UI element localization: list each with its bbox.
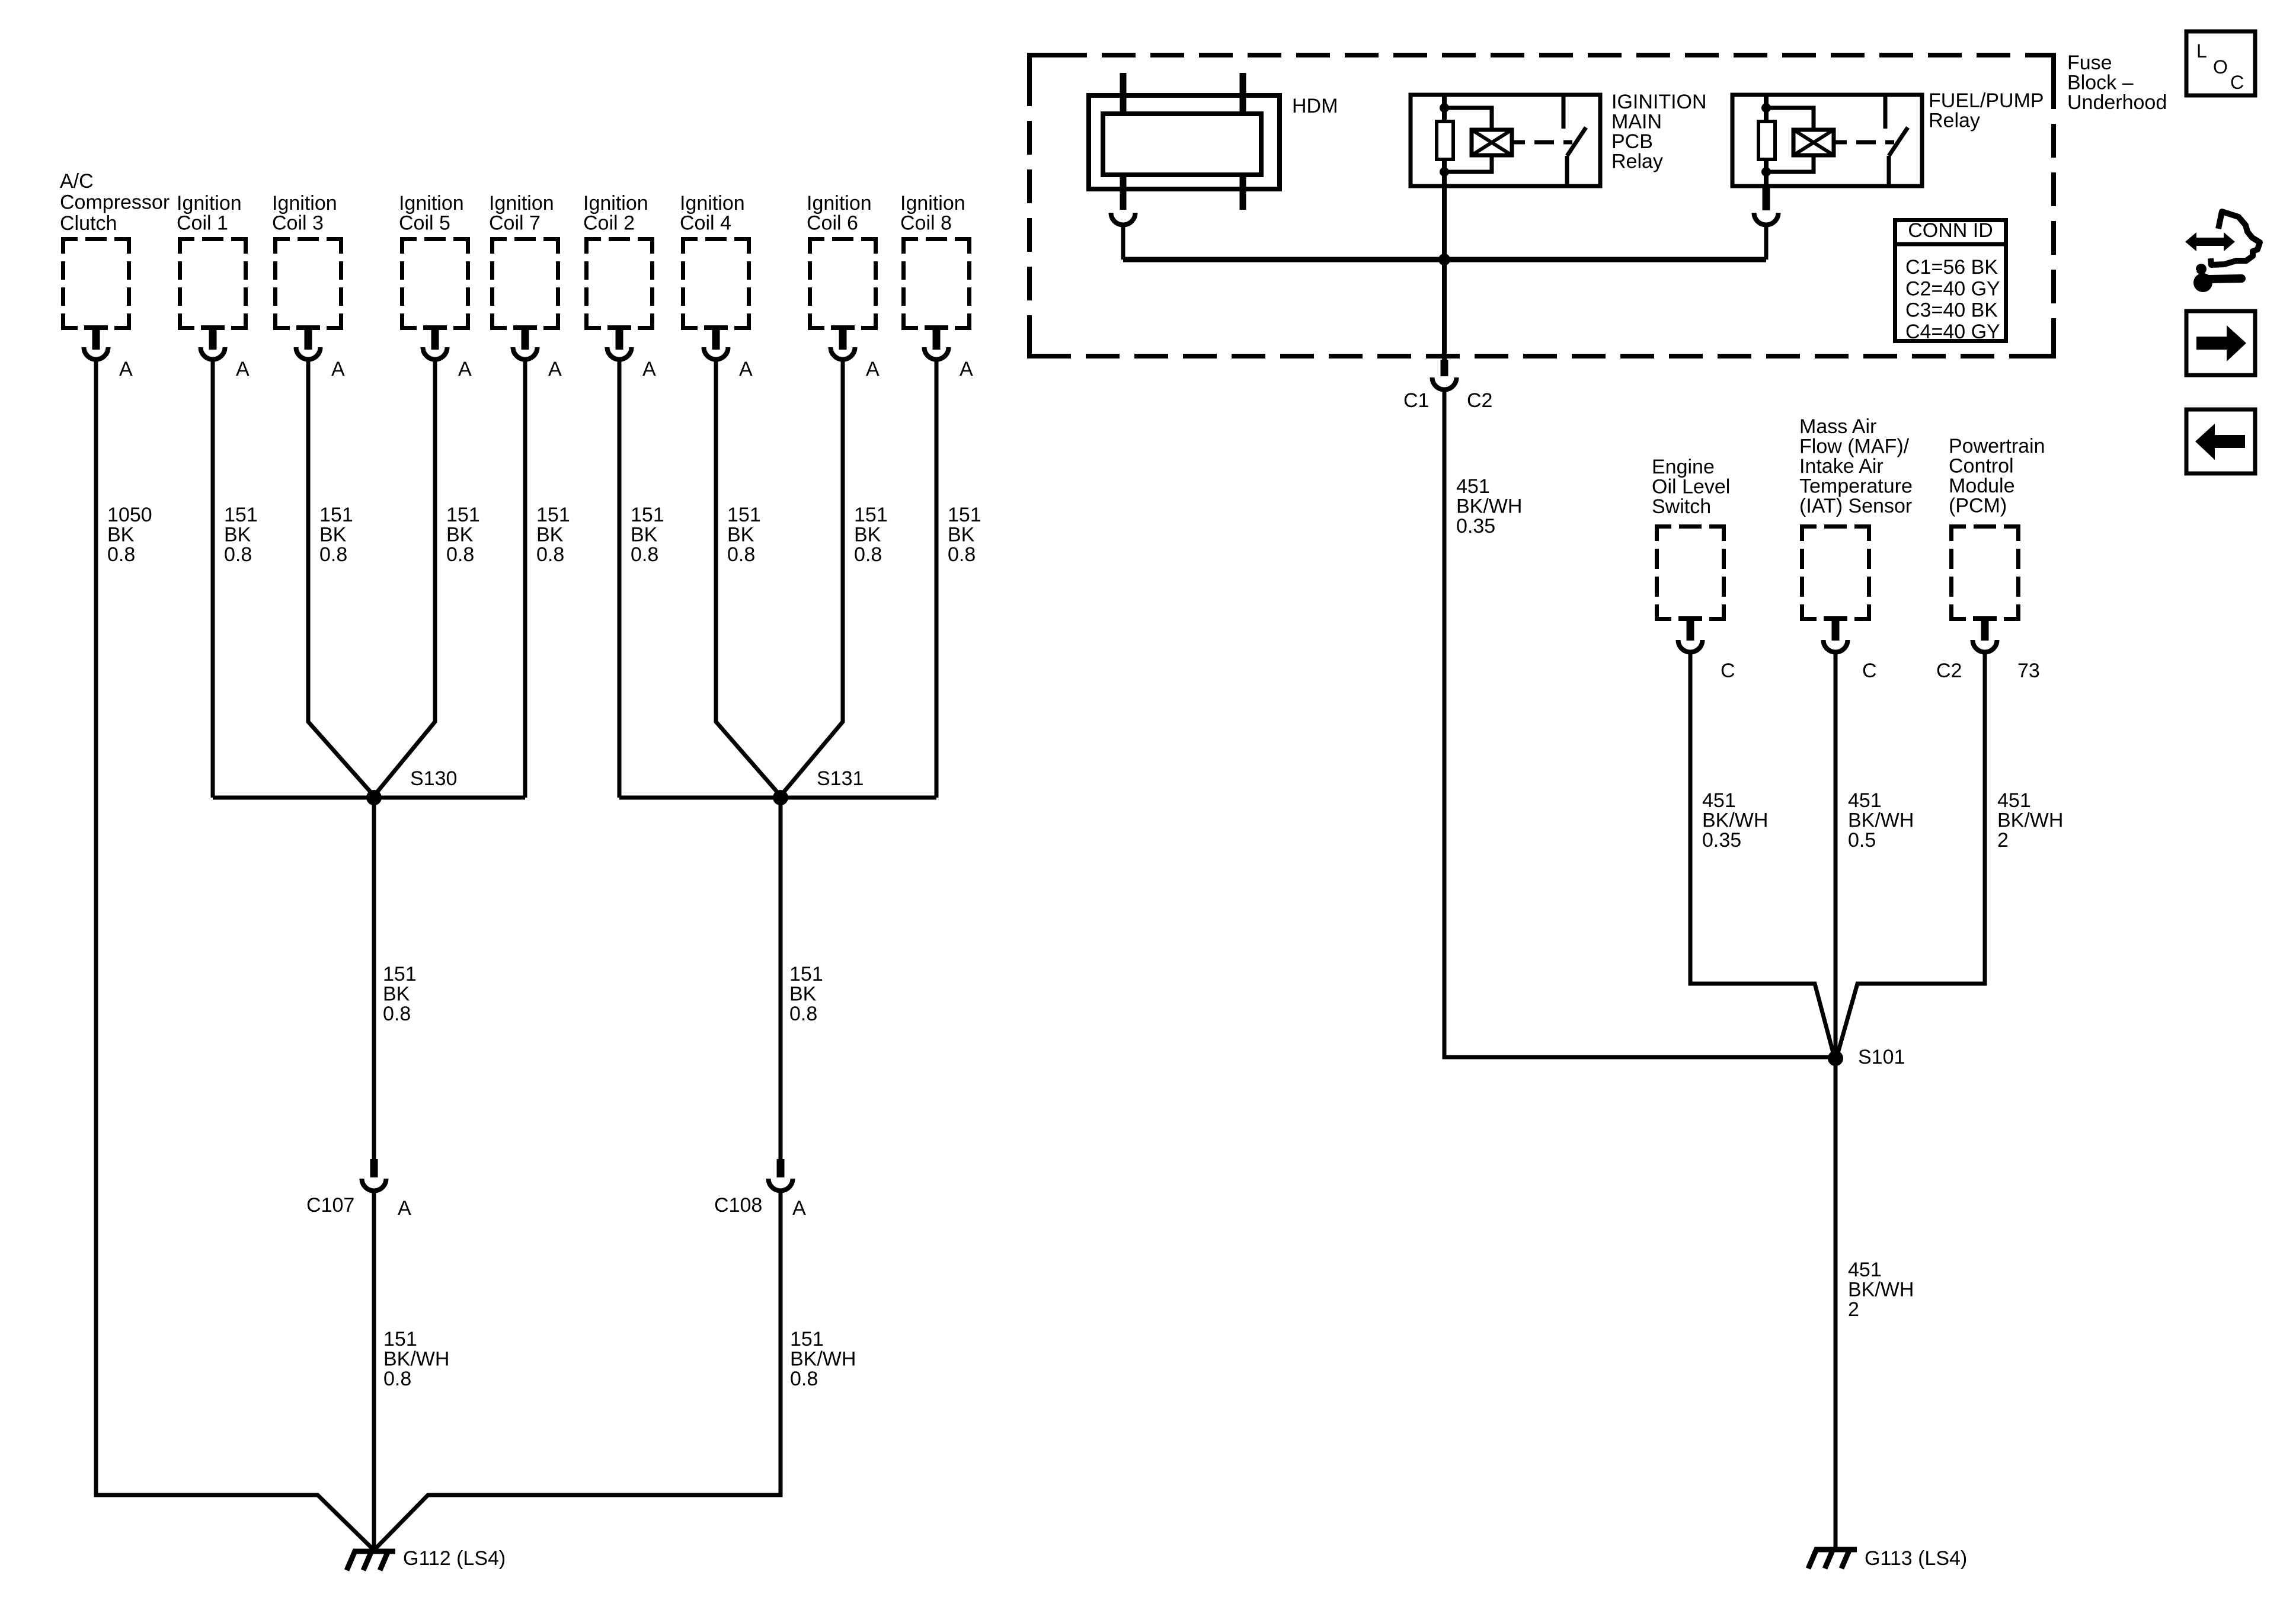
svg-text:151: 151 [383, 1328, 417, 1350]
svg-text:A: A [642, 358, 656, 380]
svg-text:Switch: Switch [1652, 495, 1711, 518]
svg-text:C2: C2 [1467, 389, 1492, 412]
component Powertrain Control Module (PCM) [1936, 435, 2045, 682]
svg-text:0.8: 0.8 [383, 1368, 411, 1390]
svg-text:BK: BK [727, 524, 754, 546]
svg-text:G112 (LS4): G112 (LS4) [403, 1547, 506, 1570]
svg-text:Block –: Block – [2067, 72, 2134, 94]
svg-text:BK/WH: BK/WH [1848, 809, 1914, 832]
right arrow legend box [2186, 311, 2255, 375]
svg-text:Ignition: Ignition [177, 192, 242, 215]
wire bus HDM / relays [1123, 257, 1766, 263]
junction dot on bus [1438, 254, 1450, 265]
wire Ignition Coil 5 to S130 [374, 361, 435, 796]
svg-text:0.8: 0.8 [319, 543, 347, 566]
svg-text:MAIN: MAIN [1611, 111, 1662, 133]
svg-text:Ignition: Ignition [489, 192, 554, 215]
svg-text:BK: BK [854, 524, 881, 546]
svg-text:Clutch: Clutch [60, 212, 117, 235]
svg-text:0.8: 0.8 [789, 1003, 817, 1025]
svg-text:S130: S130 [410, 767, 457, 790]
component Ignition Coil 5 (dashed box with connector pin A) [399, 192, 472, 380]
svg-text:0.8: 0.8 [948, 543, 976, 566]
svg-text:HDM: HDM [1292, 95, 1338, 117]
svg-text:(PCM): (PCM) [1949, 495, 2007, 517]
svg-text:Ignition: Ignition [680, 192, 745, 215]
svg-text:451: 451 [1997, 789, 2031, 812]
wire Ignition Coil 1 to S130 [211, 361, 215, 798]
svg-text:Oil Level: Oil Level [1652, 476, 1730, 498]
connector C108 pin A [714, 1159, 806, 1219]
svg-text:BK/WH: BK/WH [790, 1348, 856, 1371]
component Ignition Coil 3 (dashed box with connector pin A) [272, 192, 345, 380]
svg-text:Ignition: Ignition [583, 192, 648, 215]
component Ignition Coil 8 (dashed box with connector pin A) [900, 192, 973, 380]
wire label 151 BK 0.8 (Ignition Coil 7) [536, 504, 570, 566]
wire Ignition Coil 2 to S131 [618, 361, 622, 798]
wire S131 bus [619, 796, 936, 800]
svg-text:C107: C107 [306, 1194, 354, 1217]
service/part icon (double arrow, part outline, wrench) [2183, 212, 2260, 292]
component Engine Oil Level Switch [1652, 456, 1735, 682]
wire label 151 BK 0.8 (Ignition Coil 6) [854, 504, 888, 566]
svg-text:S101: S101 [1858, 1046, 1905, 1068]
svg-text:C3=40 BK: C3=40 BK [1905, 299, 1998, 322]
svg-text:Relay: Relay [1929, 110, 1980, 132]
svg-text:A: A [119, 358, 133, 380]
svg-text:PCB: PCB [1611, 130, 1653, 153]
connector under HDM [1111, 213, 1136, 225]
svg-text:0.5: 0.5 [1848, 829, 1876, 852]
wire S130 bus [213, 796, 525, 800]
svg-text:(IAT) Sensor: (IAT) Sensor [1799, 495, 1912, 517]
svg-text:0.35: 0.35 [1702, 829, 1741, 852]
svg-text:0.35: 0.35 [1456, 515, 1495, 537]
wire Engine Oil Level Switch to S101, 451 BK/WH 0.35 [1690, 654, 1834, 1057]
wire A/C Compressor Clutch 1050 BK to ground junction [96, 361, 374, 1550]
connector C1/C2 [1403, 360, 1492, 412]
wire 451 BK/WH 0.35 from C1/C2 to S101 [1444, 392, 1835, 1057]
component Ignition Coil 4 (dashed box with connector pin A) [680, 192, 753, 380]
svg-text:C108: C108 [714, 1194, 762, 1217]
svg-text:Mass Air: Mass Air [1799, 415, 1876, 438]
svg-text:Module: Module [1949, 475, 2015, 497]
svg-text:Powertrain: Powertrain [1949, 435, 2045, 457]
svg-text:C: C [1862, 660, 1877, 682]
svg-text:BK/WH: BK/WH [1456, 495, 1522, 518]
svg-text:Relay: Relay [1611, 151, 1663, 173]
svg-text:BK: BK [446, 524, 474, 546]
splice S131 [773, 767, 864, 805]
svg-text:151: 151 [789, 963, 823, 985]
svg-text:Coil 6: Coil 6 [807, 212, 858, 235]
svg-text:Underhood: Underhood [2067, 91, 2167, 114]
svg-text:Intake Air: Intake Air [1799, 455, 1884, 478]
svg-text:Coil 5: Coil 5 [399, 212, 450, 235]
svg-text:A: A [548, 358, 562, 380]
relay IGINITION MAIN PCB Relay [1411, 91, 1707, 188]
svg-text:A/C: A/C [60, 170, 94, 193]
svg-text:C4=40 GY: C4=40 GY [1905, 321, 2000, 343]
svg-text:A: A [792, 1197, 806, 1219]
Fuse Block - Underhood dashed enclosure [1027, 52, 2167, 359]
wire label 151 BK 0.8 (Ignition Coil 2) [631, 504, 664, 566]
component Ignition Coil 2 (dashed box with connector pin A) [583, 192, 656, 380]
svg-text:151: 151 [631, 504, 664, 526]
svg-text:0.8: 0.8 [790, 1368, 818, 1390]
svg-text:Fuse: Fuse [2067, 52, 2112, 74]
svg-text:FUEL/PUMP: FUEL/PUMP [1929, 89, 2044, 112]
svg-text:Ignition: Ignition [272, 192, 337, 215]
svg-text:O: O [2213, 56, 2228, 78]
svg-text:0.8: 0.8 [107, 543, 135, 566]
svg-text:Temperature: Temperature [1799, 475, 1913, 498]
CONN ID table [1893, 219, 2008, 343]
wire label 151 BK 0.8 (Ignition Coil 5) [446, 504, 480, 566]
svg-text:BK/WH: BK/WH [1702, 809, 1768, 832]
svg-text:BK: BK [789, 983, 817, 1006]
wire Ignition Coil 6 to S131 [781, 361, 843, 796]
svg-text:BK: BK [536, 524, 564, 546]
wire Ignition Coil 8 to S131 [935, 361, 939, 798]
svg-text:Coil 2: Coil 2 [583, 212, 635, 235]
splice S130 [366, 767, 457, 805]
svg-text:A: A [866, 358, 880, 380]
svg-text:Compressor: Compressor [60, 191, 170, 214]
svg-text:S131: S131 [817, 767, 864, 790]
wire C107 to G112, 151 BK/WH 0.8 [374, 1193, 449, 1550]
svg-text:2: 2 [1997, 829, 2009, 852]
wire S101 to G113, 451 BK/WH 2 [1835, 1058, 1914, 1548]
svg-text:C2: C2 [1936, 660, 1962, 682]
svg-text:C1=56 BK: C1=56 BK [1905, 256, 1998, 279]
wire Ignition Coil 4 to S131 [716, 361, 781, 796]
svg-text:BK: BK [224, 524, 251, 546]
svg-text:C: C [2230, 72, 2244, 93]
svg-text:151: 151 [224, 504, 258, 526]
svg-text:151: 151 [790, 1328, 824, 1350]
svg-text:BK/WH: BK/WH [1848, 1279, 1914, 1301]
wire HDM to bus [1121, 227, 1125, 260]
svg-text:A: A [331, 358, 345, 380]
svg-text:A: A [398, 1197, 411, 1219]
wire MAF/IAT sensor to S101, 451 BK/WH 0.5 [1835, 654, 1914, 1058]
HDM module [1089, 73, 1338, 210]
svg-text:G113 (LS4): G113 (LS4) [1865, 1547, 1967, 1570]
component Mass Air Flow (MAF)/Intake Air Temperature (IAT) Sensor [1799, 415, 1913, 682]
svg-text:C2=40 GY: C2=40 GY [1905, 277, 2000, 300]
svg-text:451: 451 [1848, 1259, 1882, 1281]
svg-text:2: 2 [1848, 1298, 1859, 1321]
svg-text:C: C [1721, 660, 1735, 682]
svg-text:BK/WH: BK/WH [383, 1348, 449, 1371]
wire Ignition Coil 7 to S130 [523, 361, 527, 798]
component A/C Compressor Clutch (dashed box with connector pin A) [60, 170, 170, 380]
svg-text:0.8: 0.8 [446, 543, 474, 566]
svg-text:Ignition: Ignition [807, 192, 872, 215]
wire label 151 BK 0.8 (Ignition Coil 3) [319, 504, 353, 566]
svg-text:0.8: 0.8 [383, 1003, 411, 1025]
wire Ignition Coil 3 to S130 [308, 361, 374, 796]
svg-text:A: A [739, 358, 753, 380]
component Ignition Coil 1 (dashed box with connector pin A) [177, 192, 250, 380]
svg-text:0.8: 0.8 [224, 543, 252, 566]
svg-text:1050: 1050 [107, 504, 152, 526]
connector under FUEL/PUMP relay [1754, 188, 1779, 225]
svg-text:Ignition: Ignition [399, 192, 464, 215]
svg-text:A: A [236, 358, 250, 380]
svg-text:451: 451 [1702, 789, 1736, 812]
svg-text:73: 73 [2017, 660, 2040, 682]
wire label 1050 BK 0.8 (A/C Compressor Clutch) [107, 504, 152, 566]
svg-text:A: A [960, 358, 973, 380]
relay FUEL/PUMP Relay [1732, 89, 2044, 188]
svg-text:451: 451 [1456, 475, 1490, 498]
svg-text:151: 151 [446, 504, 480, 526]
svg-text:151: 151 [727, 504, 761, 526]
svg-text:Coil 8: Coil 8 [900, 212, 952, 235]
svg-text:BK: BK [383, 983, 410, 1006]
svg-text:151: 151 [319, 504, 353, 526]
svg-text:Ignition: Ignition [900, 192, 965, 215]
wire S130 to C107, 151 BK 0.8 [374, 798, 417, 1159]
svg-text:Coil 1: Coil 1 [177, 212, 228, 235]
svg-text:Coil 3: Coil 3 [272, 212, 324, 235]
svg-text:451: 451 [1848, 789, 1882, 812]
svg-text:151: 151 [536, 504, 570, 526]
wire S131 to C108, 151 BK 0.8 [781, 798, 823, 1159]
svg-text:BK/WH: BK/WH [1997, 809, 2063, 832]
wire FUEL/PUMP relay to bus [1764, 227, 1769, 260]
svg-text:CONN ID: CONN ID [1908, 219, 1993, 242]
svg-text:Flow (MAF)/: Flow (MAF)/ [1799, 436, 1910, 458]
svg-text:BK: BK [948, 524, 975, 546]
wire label 151 BK 0.8 (Ignition Coil 1) [224, 504, 258, 566]
svg-text:0.8: 0.8 [536, 543, 564, 566]
ground G112 (LS4) [347, 1547, 506, 1570]
svg-text:L: L [2196, 40, 2207, 62]
wire label 151 BK 0.8 (Ignition Coil 4) [727, 504, 761, 566]
connector C107 pin A [306, 1159, 411, 1219]
svg-text:0.8: 0.8 [854, 543, 882, 566]
svg-text:151: 151 [854, 504, 888, 526]
LOC legend box [2186, 31, 2255, 95]
svg-text:C1: C1 [1403, 389, 1429, 412]
component Ignition Coil 6 (dashed box with connector pin A) [807, 192, 880, 380]
svg-text:151: 151 [383, 963, 417, 985]
svg-text:Coil 7: Coil 7 [489, 212, 541, 235]
svg-text:BK: BK [107, 524, 135, 546]
ground G113 (LS4) [1808, 1547, 1967, 1570]
svg-text:0.8: 0.8 [727, 543, 755, 566]
svg-text:BK: BK [319, 524, 347, 546]
splice S101 [1828, 1046, 1905, 1068]
wire C108 to ground junction, 151 BK/WH 0.8 [374, 1193, 856, 1550]
component Ignition Coil 7 (dashed box with connector pin A) [489, 192, 562, 380]
svg-text:BK: BK [631, 524, 658, 546]
svg-text:A: A [458, 358, 472, 380]
svg-text:Engine: Engine [1652, 456, 1715, 478]
svg-text:151: 151 [948, 504, 981, 526]
svg-text:0.8: 0.8 [631, 543, 658, 566]
svg-text:Coil 4: Coil 4 [680, 212, 731, 235]
wire PCM to S101, 451 BK/WH 2 [1837, 654, 2063, 1057]
wire ignition relay to C1 connector [1442, 188, 1447, 360]
wire label 151 BK 0.8 (Ignition Coil 8) [948, 504, 981, 566]
svg-text:Control: Control [1949, 455, 2014, 478]
svg-text:IGINITION: IGINITION [1611, 91, 1707, 113]
left arrow legend box [2186, 409, 2255, 473]
